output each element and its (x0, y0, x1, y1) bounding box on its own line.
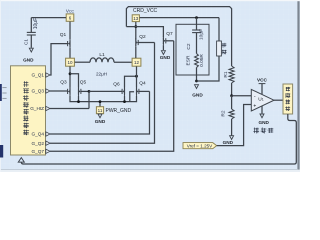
label 10uF (C2) (198, 29, 204, 40)
label CRD_VCC (133, 8, 158, 14)
feedback wire (21, 114, 296, 164)
module pin connector G_Q1 (46, 73, 50, 77)
module pin label G_HIZ (30, 106, 44, 111)
transistor Q4 (137, 87, 139, 96)
module pin connector G_Q7 (46, 149, 50, 153)
svg-text:Q7: Q7 (166, 31, 173, 37)
wire node12 down (136, 66, 138, 87)
svg-text:C2: C2 (186, 43, 192, 49)
wire hiz vertical (88, 91, 90, 108)
junction left rail (69, 72, 72, 75)
wire node10 down (69, 66, 71, 87)
wire Vcc to C1 (31, 17, 66, 19)
junction hiz node (88, 90, 91, 93)
svg-text:GND: GND (160, 55, 171, 60)
inductor L1 (90, 58, 114, 62)
minus input (254, 94, 256, 100)
figure right border (297, 1, 299, 170)
wire Q4 gate (139, 90, 150, 92)
Vref net label (183, 143, 217, 149)
wire Vref to comparator (217, 105, 252, 146)
module pin label G_Q4 (31, 132, 44, 137)
figure left border (0, 0, 2, 172)
GND label comparator (258, 120, 269, 125)
svg-text:+: + (253, 103, 256, 109)
wire right drain rail (125, 76, 137, 87)
wire G_Q7 net (50, 41, 174, 152)
svg-text:Vref = 1.25V: Vref = 1.25V (187, 143, 213, 148)
label digital processing (285, 87, 290, 111)
label Q4 (139, 81, 146, 87)
resistor ESR (195, 54, 199, 68)
svg-text:PWR_GND: PWR_GND (106, 108, 132, 114)
svg-text:12: 12 (134, 60, 140, 65)
label load (fuzai) (222, 43, 227, 54)
wire G_Q2 net (50, 43, 155, 144)
svg-text:11: 11 (98, 108, 103, 113)
wire box6 to Q1 drain (69, 22, 71, 40)
GND label cap (192, 93, 203, 98)
grid pattern (0, 0, 300, 172)
wire Q5 gate (81, 90, 89, 92)
junction node12 drain (135, 75, 138, 78)
GND label Q7 (160, 55, 171, 60)
wire Q6 gate (89, 90, 122, 92)
module pin connector G_Q4 (46, 132, 50, 136)
wire source rail (70, 96, 137, 102)
wire load top (218, 18, 220, 41)
svg-text:VCC: VCC (66, 9, 75, 14)
feedback arrow into module (18, 158, 24, 163)
transistor Q3 (68, 87, 70, 96)
svg-text:10μF: 10μF (198, 29, 204, 40)
svg-text:Q3: Q3 (60, 80, 67, 86)
label PWR_GND (106, 108, 132, 114)
wire junction to R2 (231, 96, 233, 109)
wire U1 output (274, 99, 283, 101)
op-amp U1 triangle (251, 89, 274, 111)
wire Q1 gate (50, 44, 68, 75)
wire Q5 source (78, 96, 80, 102)
wire box13 down (135, 22, 137, 39)
wire Q2 source to node12 (135, 47, 137, 58)
svg-text:R2: R2 (221, 110, 227, 116)
label Q6 (113, 82, 120, 88)
load resistor box (217, 41, 222, 56)
transistor Q5 (79, 87, 81, 96)
svg-text:G_Q7: G_Q7 (31, 149, 44, 154)
junction cap gnd (195, 80, 198, 83)
label Q1 (60, 32, 67, 38)
svg-text:GND: GND (258, 120, 269, 125)
junction divider (230, 94, 233, 97)
cap model box (176, 24, 209, 75)
wire Q1 source to node 10 (69, 48, 71, 58)
label ESR (185, 55, 191, 65)
wire C2 stub top (196, 18, 198, 30)
module pin label G_Q3 (31, 89, 44, 94)
GND tap comparator (261, 106, 263, 113)
svg-text:13: 13 (133, 16, 139, 21)
left edge connector bar (0, 84, 7, 101)
wire Q7 source (162, 45, 164, 50)
pin box 10 (66, 58, 75, 66)
wire C1 bottom (30, 35, 32, 48)
wire L1 to node12 (114, 61, 132, 63)
svg-text:CRD_VCC: CRD_VCC (133, 8, 158, 14)
VCC tap comparator (259, 84, 266, 95)
Vcc label (66, 9, 75, 14)
transistor Q2 (136, 38, 138, 47)
module pin connector G_HIZ (46, 106, 50, 110)
transistor Q6 (122, 87, 124, 96)
junction Q5 source (77, 100, 80, 103)
svg-text:GND: GND (192, 93, 203, 98)
module pin connector G_Q2 (46, 141, 50, 145)
svg-text:G_Q2: G_Q2 (31, 141, 44, 146)
module pin label G_Q2 (31, 141, 44, 146)
label Q2 (139, 34, 146, 40)
ground arrow Q7 (161, 51, 165, 55)
svg-text:Q5: Q5 (80, 80, 87, 86)
svg-text:C1: C1 (24, 39, 29, 45)
wire below box (196, 75, 198, 81)
svg-text:10: 10 (67, 60, 73, 65)
GND label R2 (223, 140, 234, 145)
svg-text:VCC: VCC (257, 78, 268, 83)
wire crd to Q7 branch (126, 27, 163, 37)
wire box13 right rail (140, 17, 219, 19)
label Q7 (166, 31, 173, 37)
junction box11 (99, 100, 102, 103)
label comparator (bijiaoqi) (253, 127, 273, 133)
svg-text:L1: L1 (99, 52, 105, 58)
figure top border (0, 0, 300, 1)
pin box 13 (132, 15, 139, 22)
wire box11 down (99, 113, 101, 115)
wire Q2 gate (138, 42, 154, 44)
wire C1 top (30, 18, 32, 33)
ground arrow PWR (98, 114, 102, 118)
pin box 6 (Vcc) (66, 14, 74, 21)
ground arrow cap (195, 85, 199, 89)
svg-text:G_Q1: G_Q1 (31, 73, 44, 78)
svg-text:-: - (254, 94, 256, 100)
svg-text:ESR: ESR (185, 55, 191, 65)
wire load join (197, 56, 220, 81)
label C2 (186, 43, 192, 49)
resistor R1 (229, 66, 234, 83)
svg-text:0.05R: 0.05R (199, 54, 205, 67)
module: hybrid logic analog block (11, 66, 46, 155)
svg-text:G_Q4: G_Q4 (31, 132, 44, 137)
label R2 (221, 110, 227, 116)
label 10uF (C1) (33, 18, 39, 30)
module pin label G_Q1 (31, 73, 44, 78)
GND label C1 (23, 58, 34, 63)
transistor Q1 (68, 39, 70, 48)
svg-text:22μH: 22μH (96, 71, 107, 76)
wire C2 to ESR (196, 33, 198, 54)
svg-text:Q2: Q2 (139, 34, 146, 40)
svg-text:G_Q3: G_Q3 (31, 89, 44, 94)
capacitor C2 (192, 30, 201, 33)
wire G_HIZ horizontal (50, 108, 89, 110)
label Q5 (80, 80, 87, 86)
wire R1 to junction (231, 83, 233, 96)
figure bottom border (0, 170, 300, 172)
label U1 (258, 96, 263, 102)
wire left drain rail (70, 74, 79, 88)
resistor R2 (229, 109, 234, 119)
GND label PWR (95, 119, 106, 124)
wire ESR to box bottom (196, 68, 198, 76)
svg-text:Q6: Q6 (113, 82, 120, 88)
label L1 (99, 52, 105, 58)
wire node10 to L1 (75, 61, 90, 63)
label C1 (24, 39, 29, 45)
transistor Q7 (163, 36, 165, 45)
CRD_VCC loop wire (126, 7, 231, 66)
junction C2 tap (195, 16, 198, 19)
ground arrow R2 (230, 136, 234, 140)
plus input (253, 103, 256, 109)
ground arrow comparator (260, 114, 264, 118)
wire Q7 gate (166, 40, 174, 42)
left edge block (0, 145, 3, 158)
svg-text:Q1: Q1 (60, 32, 67, 38)
svg-text:GND: GND (223, 140, 234, 145)
label R1 (223, 71, 229, 77)
svg-text:GND: GND (23, 58, 34, 63)
wire divider to comparator (232, 95, 252, 97)
junction box13 node (134, 25, 137, 28)
wire Q3 gate (50, 90, 68, 92)
wire box11 stub (99, 102, 101, 107)
pin box 11 (96, 107, 103, 114)
svg-text:10μF: 10μF (33, 18, 39, 30)
svg-text:G_HIZ: G_HIZ (30, 106, 44, 111)
label Q3 (60, 80, 67, 86)
label 0.05R (199, 54, 205, 67)
junction Q6 source (123, 100, 126, 103)
wire Q4 left tie (130, 92, 134, 102)
wire R2 down (231, 119, 233, 136)
module pin connector G_Q3 (46, 89, 50, 93)
module pin label G_Q7 (31, 149, 44, 154)
wire Q6 source (124, 96, 126, 102)
ground arrow C1 (29, 48, 33, 52)
wire G_Q4 net (50, 91, 150, 134)
capacitor C1 (27, 32, 36, 35)
module vertical title text (23, 81, 29, 135)
label 22uH (96, 71, 107, 76)
svg-text:GND: GND (95, 119, 106, 124)
pin box 12 (132, 58, 141, 66)
svg-text:R1: R1 (223, 71, 229, 77)
VCC label comparator (257, 78, 268, 83)
svg-text:Q4: Q4 (139, 81, 146, 87)
digital processing box (283, 84, 293, 114)
